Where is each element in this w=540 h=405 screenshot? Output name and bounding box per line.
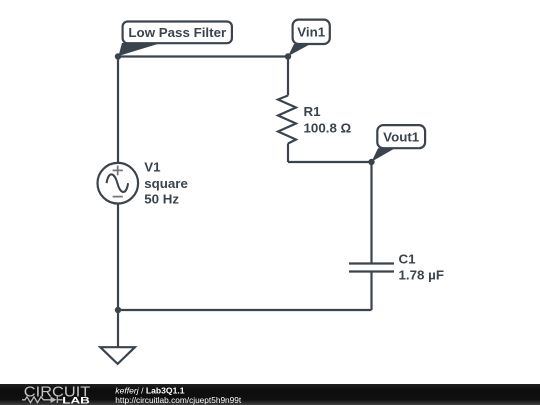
junction node A top-left: [115, 53, 121, 59]
footer logo CIRCUIT text: [24, 384, 91, 400]
svg-text:V1: V1: [144, 160, 161, 175]
svg-text:Vin1: Vin1: [297, 25, 325, 40]
callout label Low Pass Filter: [119, 22, 232, 57]
wire top horizontal (node Vin1 net): [118, 55, 288, 57]
wire C1 bottom plate down to bottom net: [370, 272, 372, 311]
svg-text:R1: R1: [304, 104, 322, 119]
svg-text:C1: C1: [399, 251, 417, 266]
voltage source V1 circle: [98, 163, 139, 204]
node flag Vout1: [372, 125, 425, 162]
wire Vin1 node down to R1 top lead: [287, 57, 289, 96]
node flag Vin1: [288, 20, 330, 57]
wire bottom horizontal (ground net): [118, 309, 372, 311]
svg-text:50 Hz: 50 Hz: [144, 192, 179, 207]
resistor R1 labels: [304, 104, 352, 136]
wire ground stem: [117, 310, 119, 348]
svg-text:LAB: LAB: [62, 396, 90, 405]
wire horizontal R1 bottom to Vout1 node: [288, 161, 372, 163]
footer logo resistor zigzag and diode glyph: [22, 397, 63, 404]
svg-text:Vout1: Vout1: [383, 129, 420, 144]
wire R1 bottom lead down to corner: [287, 144, 289, 163]
wire left vertical from top node to V1 top terminal: [117, 57, 119, 164]
voltage source V1 minus sign: [113, 196, 123, 198]
ground symbol: [100, 347, 135, 364]
footer url line: [115, 395, 242, 405]
voltage source V1 labels: [144, 160, 188, 207]
wire V1 bottom terminal to bottom node: [117, 204, 119, 311]
junction node ground net: [115, 307, 121, 313]
footer bar: [0, 384, 540, 405]
junction node Vout1: [368, 159, 374, 165]
svg-text:kefferj / Lab3Q1.1: kefferj / Lab3Q1.1: [115, 386, 184, 396]
svg-text:Low Pass Filter: Low Pass Filter: [128, 25, 226, 40]
voltage source V1 sine symbol: [107, 174, 129, 192]
svg-text:square: square: [144, 176, 188, 191]
junction node Vin1: [285, 53, 291, 59]
resistor R1 zigzag: [278, 96, 296, 144]
svg-text:100.8 Ω: 100.8 Ω: [304, 121, 352, 136]
footer credit line kefferj / Lab3Q1.1: [115, 386, 184, 396]
wire Vout1 node down to C1 top plate: [370, 162, 372, 264]
capacitor C1 labels: [399, 251, 444, 282]
svg-text:http://circuitlab.com/cjuept5h: http://circuitlab.com/cjuept5h9n99t: [115, 395, 242, 405]
voltage source V1 plus sign: [113, 166, 123, 176]
footer logo LAB text: [62, 396, 90, 405]
capacitor C1 plates: [349, 264, 394, 272]
svg-text:1.78 µF: 1.78 µF: [399, 268, 444, 283]
